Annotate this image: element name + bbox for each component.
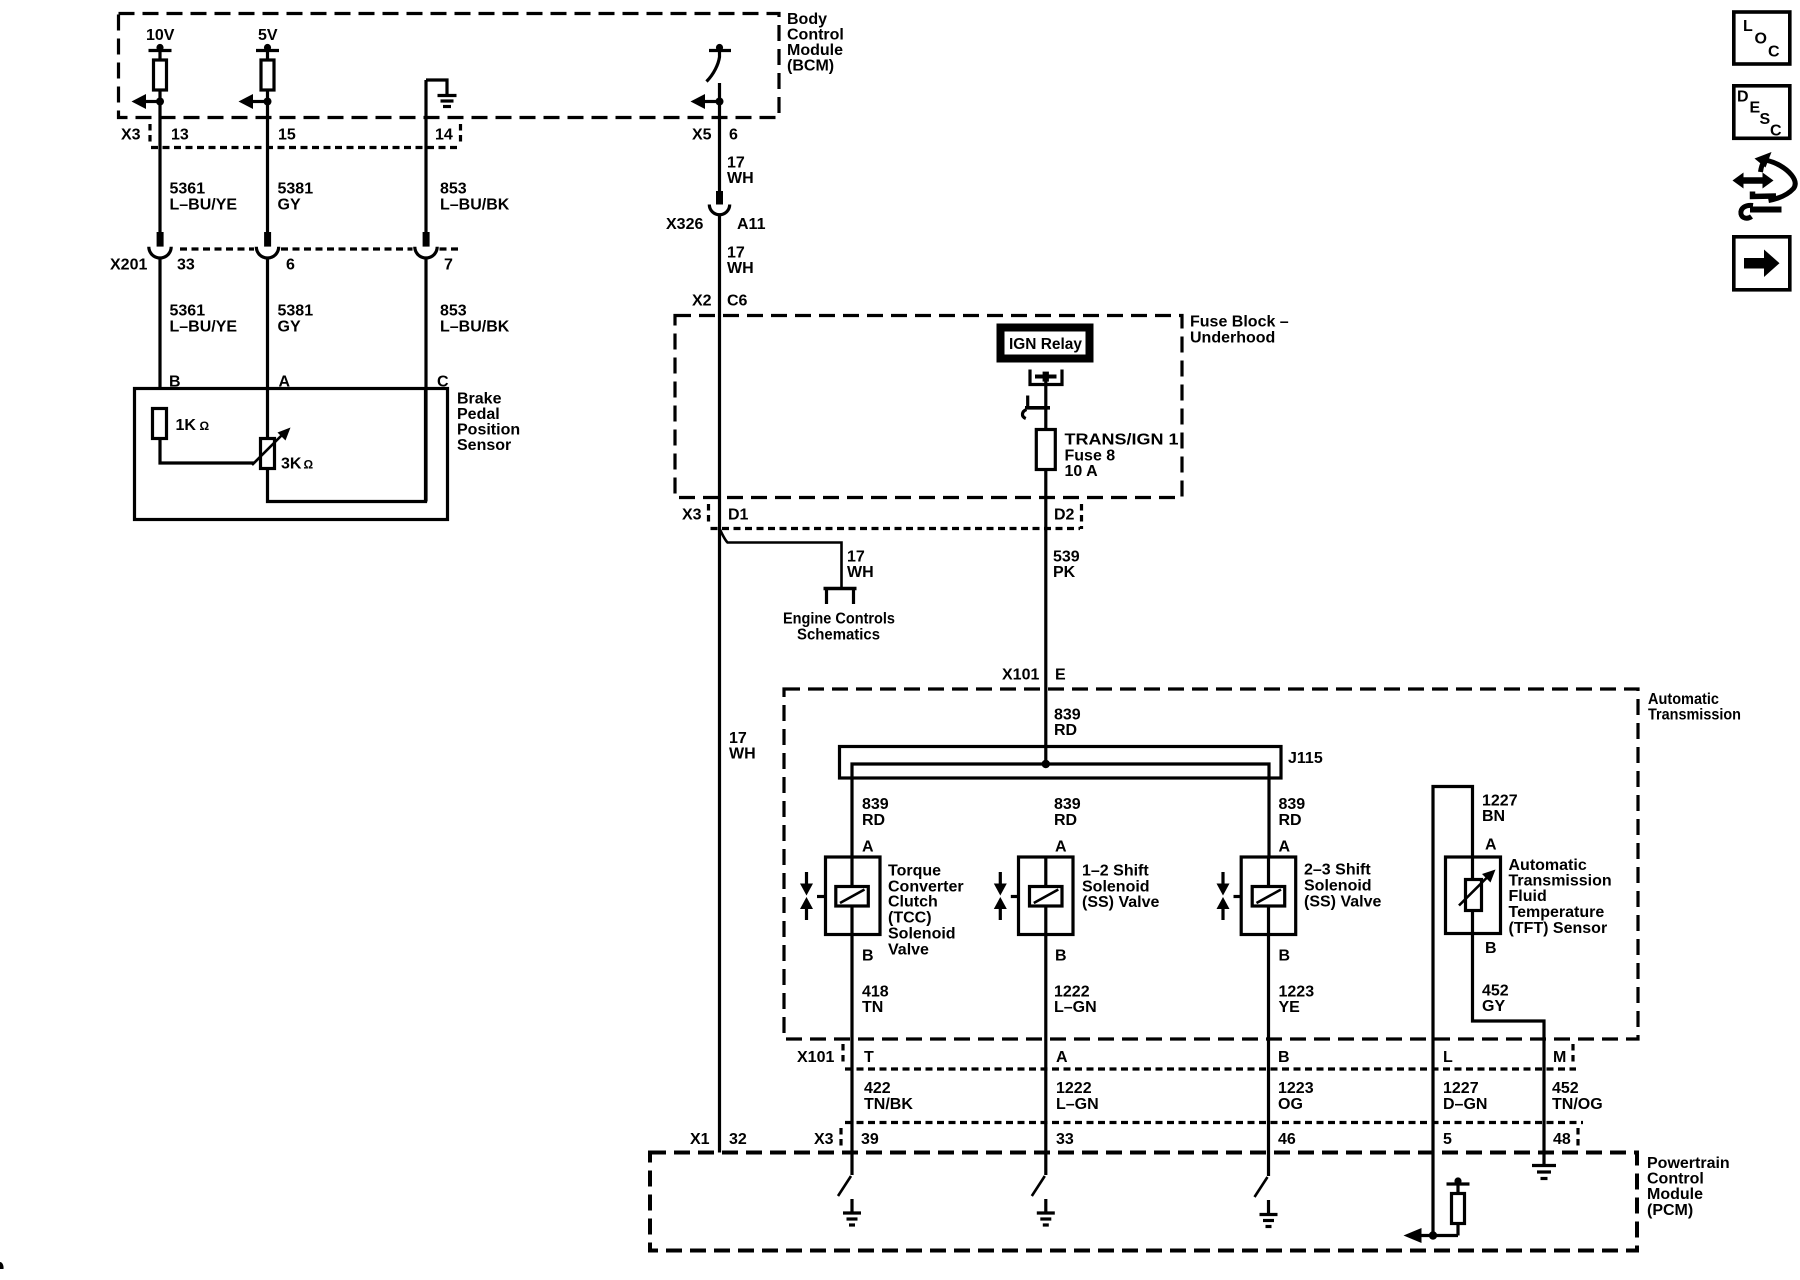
svg-text:L–BU/BK: L–BU/BK	[440, 319, 510, 336]
svg-text:WH: WH	[729, 746, 756, 763]
svg-text:539: 539	[1053, 549, 1080, 566]
svg-text:Control: Control	[1647, 1171, 1704, 1188]
PCM connector row labels	[690, 1128, 1578, 1150]
wire TFT B jog to M	[1473, 934, 1545, 1166]
svg-text:C: C	[1770, 123, 1782, 140]
svg-text:39: 39	[861, 1131, 879, 1148]
Brake Pedal Position Sensor box	[135, 389, 448, 520]
off-page connector bracket	[824, 589, 857, 605]
IGN Relay box	[997, 324, 1094, 363]
wire 1222 L-GN label (upper)	[1054, 984, 1097, 1017]
PCM connector dotted row line	[845, 1121, 1583, 1124]
svg-text:J115: J115	[1288, 750, 1323, 767]
svg-text:6: 6	[729, 127, 738, 144]
ground (pin 46)	[1260, 1200, 1278, 1227]
X201 pin terminal wire1	[149, 232, 171, 258]
svg-text:A11: A11	[737, 216, 766, 233]
BCM internal ground symbol	[426, 80, 457, 107]
Fuse Block title	[1190, 314, 1289, 347]
Powertrain Control Module (PCM) box	[650, 1153, 1637, 1251]
wire 1227 D-GN label	[1443, 1080, 1487, 1113]
svg-text:853: 853	[440, 181, 467, 198]
svg-text:S: S	[1760, 111, 1771, 128]
svg-text:(TFT) Sensor: (TFT) Sensor	[1509, 920, 1608, 937]
arrow to BCM internal (X5 wire)	[691, 94, 724, 109]
svg-text:Fuse 8: Fuse 8	[1065, 448, 1116, 465]
svg-text:A: A	[1279, 839, 1291, 856]
resistor (internal, 5V pull-up)	[261, 60, 274, 90]
svg-text:Solenoid: Solenoid	[888, 926, 956, 943]
svg-text:1227: 1227	[1482, 793, 1518, 810]
svg-text:5361: 5361	[170, 181, 206, 198]
Automatic Transmission title	[1648, 691, 1741, 724]
TFT thermistor arrow	[1459, 870, 1496, 906]
svg-text:Fluid: Fluid	[1509, 888, 1547, 905]
routing scribble icon	[1733, 152, 1796, 218]
arrow to BCM internal (10V)	[132, 94, 165, 109]
2-3 valve arrows symbol	[1217, 872, 1230, 920]
svg-text:(TCC): (TCC)	[888, 910, 932, 927]
wire TCC B down	[850, 935, 853, 1153]
wire 5381 GY label (upper)	[278, 181, 314, 214]
wire 17 WH label (branch)	[847, 549, 874, 582]
page edge mark	[0, 1262, 4, 1269]
wire 1223 YE label	[1279, 984, 1315, 1017]
svg-text:IGN Relay: IGN Relay	[1009, 336, 1082, 353]
svg-text:Ω: Ω	[304, 458, 314, 472]
X201 dotted row line	[180, 247, 458, 250]
svg-text:T: T	[864, 1049, 874, 1066]
next-page arrow icon box	[1734, 237, 1790, 290]
svg-text:1227: 1227	[1443, 1080, 1479, 1097]
svg-text:Brake: Brake	[457, 391, 502, 408]
wire 422 TN/BK label	[864, 1080, 913, 1113]
connector X3 row (BCM top)	[121, 124, 461, 148]
wire 17 WH main down to PCM	[718, 529, 721, 1153]
10V power feed symbol	[149, 44, 172, 60]
1K ohm value label	[176, 417, 210, 434]
svg-text:17: 17	[727, 155, 745, 172]
svg-text:Solenoid: Solenoid	[1082, 879, 1150, 896]
2-3 shift solenoid valve box	[1234, 857, 1296, 935]
svg-text:Engine Controls: Engine Controls	[783, 611, 895, 628]
wire below 10V resistor	[158, 90, 161, 233]
wire 1227 BN label	[1482, 793, 1518, 826]
svg-text:Body: Body	[787, 11, 827, 28]
svg-text:Transmission: Transmission	[1648, 707, 1741, 724]
wire 1222 L-GN label (lower)	[1056, 1080, 1099, 1113]
ground (pin 39)	[843, 1199, 861, 1225]
wire 1223 OG label	[1278, 1080, 1314, 1113]
svg-text:Solenoid: Solenoid	[1304, 878, 1372, 895]
svg-text:14: 14	[435, 127, 453, 144]
svg-text:Clutch: Clutch	[888, 894, 938, 911]
variable resistor 3K inside sensor	[261, 439, 275, 469]
svg-text:L: L	[1743, 18, 1753, 35]
wire 5361 L-BU/YE label (lower)	[170, 303, 238, 336]
svg-text:(SS) Valve: (SS) Valve	[1082, 894, 1159, 911]
connector X201 row	[110, 257, 453, 274]
splice pack J115 outer box	[840, 747, 1282, 779]
X201 pin terminal wire3	[415, 232, 437, 258]
svg-text:TN: TN	[862, 999, 883, 1016]
svg-text:Module: Module	[787, 42, 843, 59]
PCM switch lever pin 46	[1255, 1153, 1269, 1198]
svg-text:853: 853	[440, 303, 467, 320]
svg-text:L–BU/YE: L–BU/YE	[170, 319, 238, 336]
svg-text:B: B	[1279, 948, 1291, 965]
svg-text:TN/BK: TN/BK	[864, 1096, 913, 1113]
svg-text:7: 7	[444, 257, 453, 274]
svg-text:Torque: Torque	[888, 863, 941, 880]
svg-text:X2: X2	[692, 293, 712, 310]
svg-text:GY: GY	[278, 319, 301, 336]
svg-text:Temperature: Temperature	[1509, 904, 1605, 921]
svg-text:C6: C6	[727, 293, 748, 310]
svg-text:46: 46	[1278, 1131, 1296, 1148]
svg-text:X3: X3	[682, 507, 702, 524]
svg-text:839: 839	[1054, 707, 1081, 724]
1-2 shift solenoid title	[1082, 863, 1159, 912]
svg-text:L: L	[1443, 1049, 1453, 1066]
svg-text:10V: 10V	[146, 27, 175, 44]
svg-text:418: 418	[862, 984, 889, 1001]
svg-text:839: 839	[1054, 796, 1081, 813]
svg-text:10 A: 10 A	[1065, 463, 1099, 480]
svg-text:Powertrain: Powertrain	[1647, 1155, 1730, 1172]
connector X2 labels	[692, 293, 748, 310]
PCM switch lever pin 39	[838, 1153, 852, 1197]
wire X326 to X2	[718, 215, 721, 529]
2-3 shift solenoid title	[1304, 862, 1381, 911]
PCM internal resistor	[1452, 1194, 1465, 1224]
svg-text:(SS) Valve: (SS) Valve	[1304, 894, 1381, 911]
svg-text:1223: 1223	[1278, 1080, 1314, 1097]
svg-text:C: C	[1768, 44, 1780, 61]
wire 2-3 B down	[1267, 935, 1270, 1153]
relay output terminal bracket	[1030, 370, 1062, 385]
wire relay to switch	[1044, 377, 1047, 430]
1-2 valve arrows symbol	[994, 872, 1007, 920]
wire 853 L-BU/BK label (lower)	[440, 303, 510, 336]
ground (pin 48)	[1532, 1166, 1556, 1179]
PCM switch lever pin 33	[1032, 1153, 1046, 1197]
3K ohm value label	[281, 456, 314, 473]
TFT sensor title	[1509, 857, 1612, 937]
fuse TRANS/IGN 1 symbol	[1036, 430, 1055, 470]
svg-text:X3: X3	[814, 1131, 834, 1148]
svg-text:X101: X101	[1002, 667, 1039, 684]
1-2 shift solenoid valve box	[1011, 857, 1073, 935]
wire 539 PK label	[1053, 549, 1080, 582]
TCC solenoid title	[888, 863, 964, 959]
wire X5 down from switch	[718, 83, 721, 191]
svg-text:A: A	[1056, 1049, 1068, 1066]
svg-text:GY: GY	[278, 197, 301, 214]
wire 17 WH label (mid left of transmission)	[729, 730, 756, 763]
svg-text:X201: X201	[110, 257, 147, 274]
svg-text:D1: D1	[728, 507, 749, 524]
svg-text:B: B	[1055, 948, 1067, 965]
wire 839 RD to 2-3 label	[1279, 796, 1306, 829]
BCM title text	[787, 11, 844, 75]
Fuse Block - Underhood box	[675, 316, 1182, 498]
wire pin 5 into PCM	[1431, 1153, 1434, 1236]
svg-text:A: A	[862, 839, 874, 856]
resistor (internal, 10V pull-up)	[154, 60, 167, 90]
svg-text:L–BU/YE: L–BU/YE	[170, 197, 238, 214]
Brake Pedal Position Sensor title	[457, 391, 520, 455]
svg-text:X326: X326	[666, 216, 703, 233]
TCC valve arrows symbol	[800, 872, 813, 920]
svg-text:839: 839	[862, 796, 889, 813]
svg-text:M: M	[1553, 1049, 1566, 1066]
wire B 5361 (X201 to sensor)	[158, 258, 161, 389]
svg-text:D: D	[1737, 89, 1749, 106]
svg-text:WH: WH	[727, 260, 754, 277]
sensor internal wire A bottom to C	[268, 390, 426, 502]
svg-text:RD: RD	[1279, 812, 1302, 829]
svg-text:Position: Position	[457, 422, 520, 439]
svg-text:RD: RD	[1054, 812, 1077, 829]
svg-text:Transmission: Transmission	[1509, 873, 1612, 890]
svg-text:B: B	[862, 948, 874, 965]
svg-text:2–3 Shift: 2–3 Shift	[1304, 862, 1371, 879]
PCM internal pull-up: power feed	[1447, 1177, 1470, 1193]
PCM internal signal line with arrow	[1404, 1228, 1459, 1243]
X201 pin terminal wire2	[256, 232, 278, 258]
connector X326 terminal	[709, 191, 729, 215]
wire 418 TN label	[862, 984, 889, 1017]
svg-text:L–GN: L–GN	[1054, 999, 1097, 1016]
svg-text:Module: Module	[1647, 1186, 1703, 1203]
ground (pin 33)	[1037, 1199, 1055, 1225]
svg-text:1222: 1222	[1054, 984, 1090, 1001]
svg-text:D–GN: D–GN	[1443, 1096, 1487, 1113]
svg-text:Valve: Valve	[888, 942, 929, 959]
Engine Controls Schematics label	[783, 611, 895, 644]
svg-text:E: E	[1055, 667, 1066, 684]
wire 839 RD to 1-2 label	[1054, 796, 1081, 829]
svg-text:A: A	[1055, 839, 1067, 856]
svg-text:TRANS/IGN 1: TRANS/IGN 1	[1065, 432, 1179, 449]
svg-text:33: 33	[177, 257, 195, 274]
LOC icon box	[1734, 12, 1790, 64]
svg-text:D2: D2	[1054, 507, 1075, 524]
svg-text:OG: OG	[1278, 1096, 1303, 1113]
wire below 5V resistor	[266, 90, 269, 233]
svg-text:5V: 5V	[258, 27, 278, 44]
svg-text:Fuse Block –: Fuse Block –	[1190, 314, 1289, 331]
svg-text:RD: RD	[862, 812, 885, 829]
svg-text:L–GN: L–GN	[1056, 1096, 1099, 1113]
wire 5381 GY label (lower)	[278, 303, 314, 336]
Body Control Module (BCM) box	[119, 14, 780, 118]
wire 1-2 B down	[1044, 935, 1047, 1153]
wire 452 TN/OG label	[1552, 1080, 1603, 1113]
BCM switch symbol on X5 wire	[707, 44, 732, 82]
svg-text:Ω: Ω	[200, 419, 210, 433]
svg-text:Sensor: Sensor	[457, 437, 511, 454]
svg-text:Control: Control	[787, 27, 844, 44]
wire C 853 (X201 to sensor)	[424, 258, 427, 502]
TCC solenoid valve box	[817, 857, 880, 935]
svg-text:GY: GY	[1482, 998, 1505, 1015]
svg-text:Automatic: Automatic	[1648, 691, 1719, 708]
TFT sensor box	[1446, 857, 1501, 934]
3K wiper arrow	[252, 428, 291, 466]
svg-text:6: 6	[286, 257, 295, 274]
5V power feed symbol	[256, 44, 279, 60]
svg-text:422: 422	[864, 1080, 891, 1097]
svg-text:RD: RD	[1054, 722, 1077, 739]
svg-text:48: 48	[1553, 1131, 1571, 1148]
svg-text:(BCM): (BCM)	[787, 58, 834, 75]
svg-text:B: B	[1485, 940, 1497, 957]
svg-text:452: 452	[1552, 1080, 1579, 1097]
svg-text:17: 17	[847, 549, 865, 566]
svg-text:Underhood: Underhood	[1190, 330, 1275, 347]
svg-text:33: 33	[1056, 1131, 1074, 1148]
wire from ground down (853)	[424, 80, 427, 233]
svg-text:1223: 1223	[1279, 984, 1315, 1001]
DESC icon box	[1734, 86, 1790, 140]
svg-text:B: B	[1278, 1049, 1290, 1066]
fuse labels	[1065, 432, 1179, 481]
svg-text:1222: 1222	[1056, 1080, 1092, 1097]
X326 labels	[666, 216, 766, 233]
svg-text:1–2 Shift: 1–2 Shift	[1082, 863, 1149, 880]
svg-text:5381: 5381	[278, 181, 314, 198]
X3 D1/D2 dotted row line	[711, 527, 1081, 530]
svg-text:WH: WH	[727, 170, 754, 187]
svg-text:13: 13	[171, 127, 189, 144]
connector X3 (fuse block bottom) labels	[682, 504, 1082, 529]
PCM title	[1647, 1155, 1730, 1219]
wire 539 PK fuse to X101	[1044, 470, 1047, 765]
wire A 5381 (X201 to sensor)	[266, 258, 269, 439]
svg-text:TN/OG: TN/OG	[1552, 1096, 1603, 1113]
svg-text:YE: YE	[1279, 999, 1301, 1016]
svg-text:Pedal: Pedal	[457, 406, 500, 423]
svg-text:BN: BN	[1482, 808, 1505, 825]
J115 internal bus wire	[852, 764, 1269, 857]
svg-text:3K: 3K	[281, 456, 302, 473]
connector X5 labels	[692, 127, 738, 144]
svg-text:X1: X1	[690, 1131, 710, 1148]
wire 1K bottom to wiper	[160, 439, 254, 464]
svg-text:L–BU/BK: L–BU/BK	[440, 197, 510, 214]
branch wire to Engine Controls	[720, 529, 842, 589]
wire 839 RD label (above J115)	[1054, 707, 1081, 740]
svg-text:Schematics: Schematics	[797, 627, 880, 644]
svg-text:5361: 5361	[170, 303, 206, 320]
svg-text:A: A	[1485, 837, 1497, 854]
wire 17 WH label (below X5)	[727, 155, 754, 188]
svg-text:839: 839	[1279, 796, 1306, 813]
wire 853 L-BU/BK label (upper)	[440, 181, 510, 214]
J115 junction dot	[1042, 760, 1050, 768]
arrow to BCM internal (5V)	[239, 94, 272, 109]
svg-text:5381: 5381	[278, 303, 314, 320]
svg-text:1K: 1K	[176, 417, 197, 434]
svg-text:17: 17	[729, 730, 747, 747]
Automatic Transmission box	[784, 689, 1638, 1039]
svg-text:PK: PK	[1053, 564, 1076, 581]
wire 17 WH label (below X326)	[727, 245, 754, 278]
relay switch lever	[1022, 396, 1050, 419]
svg-text:17: 17	[727, 245, 745, 262]
resistor bottom to junction	[1456, 1224, 1459, 1236]
svg-text:(PCM): (PCM)	[1647, 1202, 1693, 1219]
X101 dotted row line	[845, 1067, 1576, 1070]
TFT hook wire 1227 BN	[1433, 787, 1473, 1153]
svg-text:X5: X5	[692, 127, 712, 144]
svg-text:WH: WH	[847, 564, 874, 581]
svg-text:X101: X101	[797, 1049, 834, 1066]
wire 839 RD to TCC label	[862, 796, 889, 829]
wire 452 GY label	[1482, 983, 1509, 1016]
resistor 1K inside sensor	[153, 409, 167, 439]
svg-text:O: O	[1755, 31, 1767, 48]
wire 5361 L-BU/YE label (upper)	[170, 181, 238, 214]
svg-text:15: 15	[278, 127, 296, 144]
svg-text:Automatic: Automatic	[1509, 857, 1587, 874]
connector X101 bottom row labels	[797, 1044, 1573, 1066]
svg-text:452: 452	[1482, 983, 1509, 1000]
svg-text:32: 32	[729, 1131, 747, 1148]
connector X101 E labels	[1002, 667, 1066, 684]
svg-text:5: 5	[1443, 1131, 1452, 1148]
svg-text:X3: X3	[121, 127, 141, 144]
